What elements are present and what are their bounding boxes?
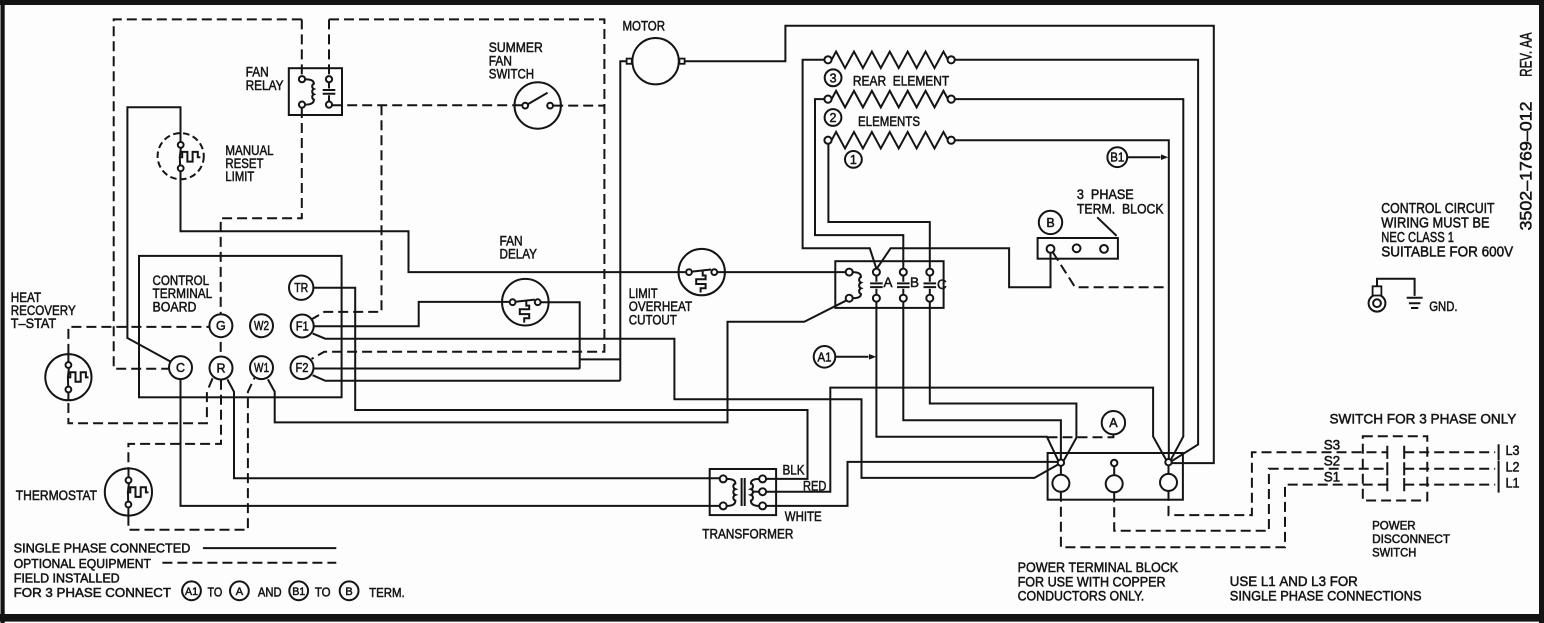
dashed wire fan-relay top-right to F2 terminal <box>312 19 605 359</box>
power terminal block posts <box>1052 459 1177 492</box>
thermostat switch <box>105 468 152 515</box>
svg-text:MOTOR: MOTOR <box>623 19 666 34</box>
wire element1 left to contact C <box>828 144 929 269</box>
fan relay coil contacts <box>299 76 314 108</box>
legend dashed line sample <box>162 562 336 564</box>
transformer internals <box>720 475 766 509</box>
svg-text:L3: L3 <box>1506 443 1520 458</box>
wire MRL-top to C terminal (via left riser) <box>127 107 180 362</box>
svg-text:A: A <box>1109 416 1118 430</box>
element 1 heating element <box>832 132 948 149</box>
svg-text:T–STAT: T–STAT <box>11 316 56 331</box>
svg-text:SWITCH FOR 3 PHASE ONLY: SWITCH FOR 3 PHASE ONLY <box>1330 411 1517 426</box>
svg-text:CONTROL CIRCUIT: CONTROL CIRCUIT <box>1381 201 1494 217</box>
svg-text:3 PHASE: 3 PHASE <box>1077 187 1134 202</box>
wire contact B bottom to left post <box>903 302 1061 460</box>
element 3 heating element <box>832 52 948 69</box>
fan relay FR box <box>289 68 342 115</box>
svg-text:B1: B1 <box>292 586 305 598</box>
dashed wire summer-fan-switch right lead <box>553 105 604 107</box>
svg-text:FOR USE WITH COPPER: FOR USE WITH COPPER <box>1018 574 1166 589</box>
contactor box <box>835 261 943 308</box>
svg-text:A: A <box>884 275 893 290</box>
dashed wire A circle to left post junction <box>1048 435 1114 438</box>
svg-text:POWER TERMINAL BLOCK: POWER TERMINAL BLOCK <box>1018 560 1179 575</box>
svg-text:TERM. BLOCK: TERM. BLOCK <box>1077 201 1164 216</box>
dashed stub into fan relay left top <box>301 19 303 76</box>
transformer box <box>710 469 776 515</box>
svg-text:TERM.: TERM. <box>369 586 405 600</box>
svg-text:ELEMENTS: ELEMENTS <box>858 114 920 129</box>
svg-text:L1: L1 <box>1506 476 1520 491</box>
wire 3phase-term-block to contact A (V right branch) <box>877 248 1051 287</box>
svg-text:TR: TR <box>294 281 308 295</box>
legend solid line sample <box>203 547 336 549</box>
limit overheat cutout switch <box>679 249 725 295</box>
svg-text:BLK: BLK <box>783 463 805 478</box>
A1 arrow <box>814 346 877 368</box>
svg-text:S1: S1 <box>1324 470 1341 485</box>
wire element2 right to right post <box>955 99 1184 460</box>
svg-text:SWITCH: SWITCH <box>489 67 534 82</box>
wire motor right lead to right post of power terminal block <box>685 26 1214 463</box>
L terminal bars <box>1498 444 1500 492</box>
contactor contact A <box>870 269 883 302</box>
svg-text:F1: F1 <box>296 320 309 334</box>
svg-text:DELAY: DELAY <box>500 247 538 262</box>
3 phase term block pointer line <box>1097 217 1116 236</box>
svg-text:RED: RED <box>803 478 827 493</box>
svg-text:CUTOUT: CUTOUT <box>629 312 677 327</box>
wire F1-lower chain to left post of power terminal block <box>313 333 1058 478</box>
svg-text:USE L1 AND L3 FOR: USE L1 AND L3 FOR <box>1230 574 1358 589</box>
svg-text:DISCONNECT: DISCONNECT <box>1372 534 1450 546</box>
dashed wire middle large post to S2 <box>1114 469 1495 531</box>
svg-text:FIELD INSTALLED: FIELD INSTALLED <box>14 571 120 585</box>
ground symbol bars <box>1407 298 1423 308</box>
svg-text:3502–1769–012: 3502–1769–012 <box>1518 102 1536 231</box>
wire element3 right to right post <box>955 60 1198 461</box>
wire F2-lower slant to motor lead <box>313 375 621 381</box>
contactor contact C <box>924 269 937 302</box>
power disconnect switch dashed box <box>1363 436 1428 500</box>
circle A label <box>1102 411 1125 434</box>
3 phase terminal block posts <box>1047 244 1108 252</box>
svg-text:B: B <box>910 275 919 290</box>
fan relay switch contact <box>323 76 336 108</box>
dashed wire summer-fan-switch left lead <box>332 104 522 106</box>
wire element1 right to right post <box>955 140 1169 459</box>
svg-text:SWITCH: SWITCH <box>1372 548 1416 560</box>
disconnect switch contact bars <box>1387 446 1404 492</box>
svg-text:SINGLE PHASE CONNECTED: SINGLE PHASE CONNECTED <box>14 542 191 556</box>
svg-text:TO: TO <box>315 586 331 600</box>
svg-text:2: 2 <box>830 111 837 125</box>
svg-text:BOARD: BOARD <box>153 299 197 314</box>
element number circles <box>825 69 842 86</box>
svg-text:C: C <box>176 361 185 375</box>
svg-text:SUITABLE FOR 600V: SUITABLE FOR 600V <box>1381 244 1513 260</box>
fan delay switch <box>502 279 549 326</box>
dashed wire left large post to S1 <box>1061 485 1495 548</box>
svg-text:S3: S3 <box>1324 437 1341 452</box>
svg-text:THERMOSTAT: THERMOSTAT <box>16 488 97 503</box>
manual reset limit switch (dashed circle) <box>158 133 204 179</box>
dashed wire 3phase-term-block to element1 riser (B1 net) <box>1053 252 1169 287</box>
svg-text:3: 3 <box>830 71 837 85</box>
dashed wire heat-recovery-tstat to G terminal <box>68 327 209 354</box>
dashed stub into fan relay right top <box>328 19 330 76</box>
svg-text:OPTIONAL EQUIPMENT: OPTIONAL EQUIPMENT <box>14 557 152 571</box>
svg-text:B: B <box>1046 216 1054 230</box>
svg-text:C: C <box>937 277 947 292</box>
svg-text:W1: W1 <box>254 361 269 375</box>
svg-text:TRANSFORMER: TRANSFORMER <box>702 526 793 541</box>
dashed wire R terminal to heat-recovery-tstat <box>68 378 212 423</box>
wire RED chain to right post <box>766 388 1166 492</box>
svg-text:G: G <box>216 319 226 333</box>
motor <box>627 38 685 84</box>
dashed wire fan-relay top-left to C terminal <box>114 19 302 368</box>
dashed wire R terminal to thermostat top <box>128 380 221 468</box>
wire contact A bottom to left post <box>876 302 1058 461</box>
svg-text:REV. AA: REV. AA <box>1518 32 1536 76</box>
svg-text:AND: AND <box>258 586 282 600</box>
svg-text:B1: B1 <box>1110 151 1124 165</box>
dashed wire fan-relay bottom-right to F1 terminal <box>312 105 382 319</box>
svg-text:S2: S2 <box>1324 454 1341 469</box>
svg-text:A1: A1 <box>185 586 198 598</box>
svg-text:WIRING MUST BE: WIRING MUST BE <box>1381 216 1489 232</box>
svg-text:F2: F2 <box>296 361 309 375</box>
wire R funnel to transformer primary top <box>227 379 719 478</box>
svg-text:L2: L2 <box>1506 459 1520 474</box>
wire MRL-bottom to limit-overheat-cutout to contactor coil <box>181 171 846 272</box>
svg-text:POWER: POWER <box>1372 521 1416 533</box>
wire F1-middle to fan-delay left terminal <box>314 302 510 326</box>
legend circled terms <box>182 581 358 600</box>
svg-text:LIMIT: LIMIT <box>225 169 254 184</box>
wire element2 left to contact B <box>815 99 903 269</box>
svg-text:R: R <box>216 362 225 376</box>
circle B label <box>1039 211 1062 234</box>
svg-text:CONDUCTORS ONLY.: CONDUCTORS ONLY. <box>1018 589 1145 604</box>
svg-text:TO: TO <box>208 586 223 600</box>
svg-text:RELAY: RELAY <box>246 78 284 93</box>
terminal circles on board <box>169 276 314 380</box>
wire W1 funnel to contactor coil bottom <box>268 301 846 423</box>
3 phase terminal block box <box>1038 238 1118 259</box>
wire F2-middle to fan-delay leg <box>314 368 580 370</box>
svg-text:REAR ELEMENT: REAR ELEMENT <box>853 74 949 89</box>
wire motor left lead down to F2-lower net <box>620 61 627 381</box>
svg-text:FOR 3 PHASE CONNECT: FOR 3 PHASE CONNECT <box>14 586 172 600</box>
wire contact C bottom to left post <box>930 302 1077 461</box>
wire C terminal to transformer primary bottom <box>181 379 720 506</box>
wire fan-delay right leg <box>541 302 621 369</box>
heat recovery t-stat switch <box>45 354 91 401</box>
dashed wire thermostat bottom to W1 terminal <box>128 378 254 530</box>
svg-text:W2: W2 <box>254 319 269 333</box>
wire WHITE chain to left post <box>766 462 1057 506</box>
element 2 heating element <box>832 91 948 108</box>
wire TR to transformer secondary BLK <box>313 288 807 479</box>
svg-text:A: A <box>236 586 244 598</box>
dashed wire right large post to S3 <box>1169 452 1496 515</box>
power terminal block box <box>1048 453 1183 500</box>
control terminal board box <box>139 256 342 397</box>
contactor contact B <box>897 269 910 302</box>
svg-text:1: 1 <box>850 153 857 167</box>
summer fan switch <box>515 82 561 128</box>
ground ring terminal <box>1369 279 1415 312</box>
svg-text:SINGLE PHASE CONNECTIONS: SINGLE PHASE CONNECTIONS <box>1230 588 1422 603</box>
dashed wire fan-relay bottom-left to R terminal <box>221 108 302 356</box>
svg-text:B: B <box>345 586 352 598</box>
svg-text:WHITE: WHITE <box>785 509 822 524</box>
wire element3 left to contact A (V left branch) <box>803 60 877 269</box>
contactor coil <box>846 269 861 302</box>
B1 arrow <box>1107 147 1168 167</box>
svg-text:GND.: GND. <box>1429 299 1457 314</box>
svg-text:A1: A1 <box>818 350 832 364</box>
